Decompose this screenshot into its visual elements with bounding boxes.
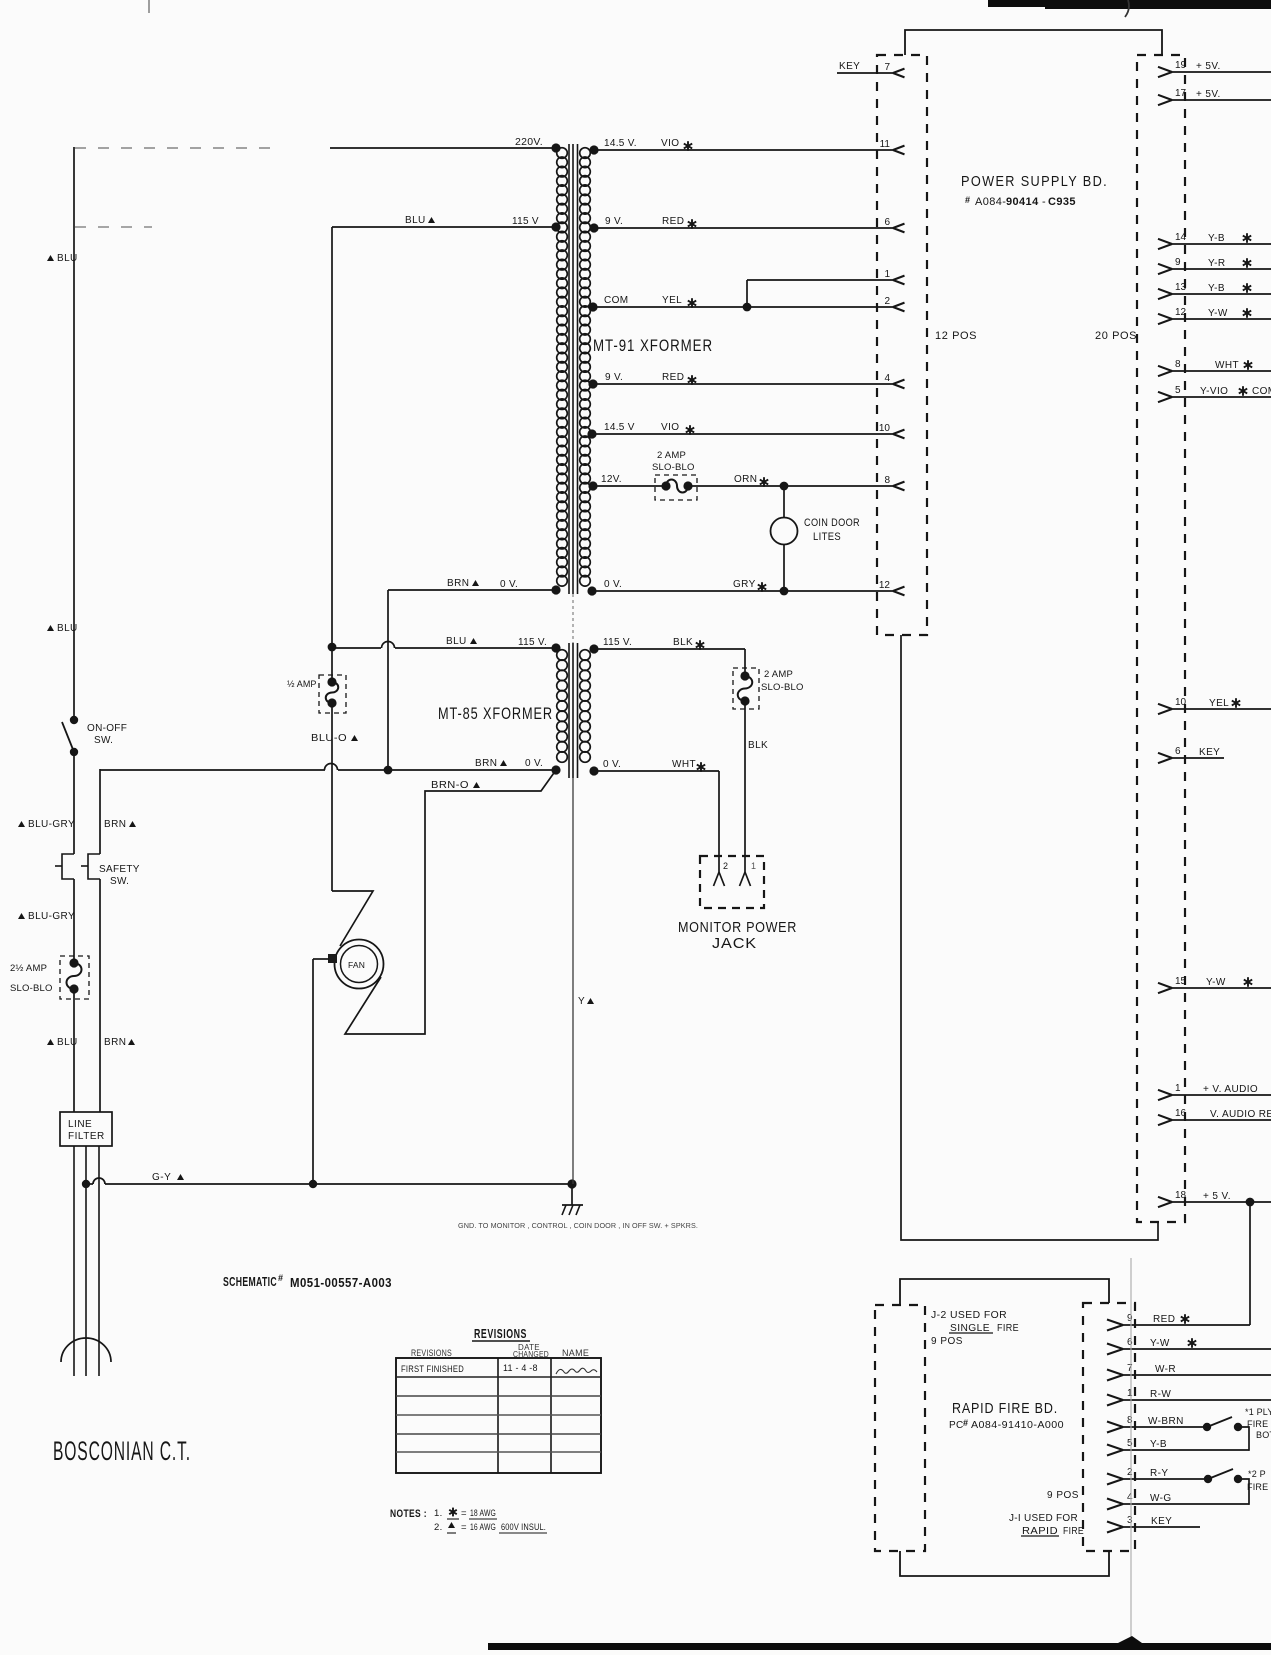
svg-text:COM: COM [604,295,629,306]
svg-text:VIO: VIO [661,422,679,433]
svg-text:J-2 USED FOR: J-2 USED FOR [931,1310,1007,1321]
svg-text:0 V.: 0 V. [603,759,621,770]
svg-text:9 V.: 9 V. [605,372,623,383]
svg-text:2: 2 [884,296,890,307]
svg-text:=: = [461,1508,467,1519]
svg-text:20 POS: 20 POS [1095,330,1137,342]
svg-text:7: 7 [884,62,890,73]
svg-text:FIRE: FIRE [1247,1482,1268,1492]
svg-text:YEL: YEL [1209,698,1229,709]
svg-text:10: 10 [1175,697,1187,708]
svg-text:Y-W: Y-W [1208,308,1228,319]
svg-text:BRN: BRN [447,578,469,589]
svg-text:9 POS: 9 POS [931,1336,963,1347]
svg-text:COIN DOOR: COIN DOOR [804,517,860,529]
svg-text:12V.: 12V. [601,474,622,485]
svg-text:R-W: R-W [1150,1389,1171,1400]
svg-text:9 V.: 9 V. [605,216,623,227]
svg-text:BLK: BLK [673,637,693,648]
svg-text:FIRST FINISHED: FIRST FINISHED [401,1364,464,1374]
svg-text:YEL: YEL [662,295,682,306]
svg-text:REVISIONS: REVISIONS [411,1348,452,1358]
svg-text:FAN: FAN [348,960,365,970]
svg-text:0 V.: 0 V. [500,579,518,590]
svg-text:FILTER: FILTER [68,1131,105,1142]
svg-text:+ 5V.: + 5V. [1196,61,1221,72]
svg-text:SLO-BLO: SLO-BLO [652,462,695,473]
svg-text:RAPID: RAPID [1022,1526,1058,1537]
svg-text:5: 5 [1175,385,1181,396]
svg-text:NAME: NAME [562,1348,589,1358]
svg-text:WHT: WHT [1215,360,1239,371]
svg-text:RAPID FIRE BD.: RAPID FIRE BD. [952,1400,1058,1417]
svg-text:SW.: SW. [110,876,129,887]
svg-text:16 AWG: 16 AWG [470,1522,496,1533]
svg-text:2½ AMP: 2½ AMP [10,963,47,974]
svg-text:Y-R: Y-R [1208,258,1226,269]
svg-text:0 V.: 0 V. [604,579,622,590]
svg-text:COM: COM [1252,386,1271,397]
svg-text:SLO-BLO: SLO-BLO [761,682,804,693]
svg-text:LITES: LITES [813,531,841,543]
svg-text:SW.: SW. [94,735,113,746]
svg-text:8: 8 [884,475,890,486]
svg-text:1: 1 [884,269,890,280]
svg-text:14.5 V.: 14.5 V. [604,138,637,149]
svg-text:VIO: VIO [661,138,679,149]
svg-text:BLU-O: BLU-O [311,733,347,744]
svg-text:15: 15 [1175,976,1187,987]
svg-text:18: 18 [1175,1190,1187,1201]
svg-text:2 AMP: 2 AMP [764,669,793,680]
svg-text:#: # [965,195,970,205]
svg-text:0 V.: 0 V. [525,758,543,769]
svg-text:GND. TO MONITOR , CONTROL , C: GND. TO MONITOR , CONTROL , COIN DOOR , … [458,1221,698,1230]
svg-text:8: 8 [1127,1415,1133,1426]
svg-text:KEY: KEY [839,61,860,72]
svg-text:11: 11 [880,139,891,150]
svg-text:RED: RED [662,372,684,383]
svg-text:Y-B: Y-B [1208,233,1225,244]
svg-text:V. AUDIO RET.: V. AUDIO RET. [1210,1109,1271,1120]
svg-text:SCHEMATIC: SCHEMATIC [223,1275,277,1289]
svg-text:600V INSUL.: 600V INSUL. [501,1522,546,1533]
svg-text:6: 6 [1175,746,1181,757]
svg-text:NOTES :: NOTES : [390,1508,427,1520]
svg-text:FIRE: FIRE [1063,1526,1084,1537]
svg-text:2: 2 [723,861,728,871]
svg-text:220V.: 220V. [515,136,543,148]
svg-text:W-R: W-R [1155,1364,1176,1375]
svg-text:C935: C935 [1048,196,1076,208]
svg-text:3: 3 [1127,1515,1133,1526]
svg-text:9 POS: 9 POS [1047,1490,1079,1501]
svg-text:FIRE: FIRE [1247,1419,1268,1429]
svg-text:A084-91410-A000: A084-91410-A000 [971,1420,1064,1431]
svg-text:BOTH: BOTH [1256,1430,1271,1440]
svg-text:115 V.: 115 V. [603,637,632,648]
svg-text:1.: 1. [434,1508,443,1519]
svg-text:17: 17 [1175,88,1187,99]
svg-text:BLU: BLU [405,215,426,226]
svg-text:4: 4 [884,373,890,384]
svg-text:*2 P: *2 P [1248,1469,1266,1479]
svg-text:KEY: KEY [1199,747,1220,758]
svg-text:RED: RED [1153,1314,1175,1325]
svg-text:4: 4 [1127,1492,1133,1503]
svg-text:R-Y: R-Y [1150,1468,1168,1479]
svg-text:RED: RED [662,216,684,227]
svg-text:16: 16 [1175,1108,1187,1119]
svg-text:#: # [278,1273,283,1283]
svg-text:13: 13 [1175,282,1187,293]
svg-text:SAFETY: SAFETY [99,864,140,875]
svg-text:+ V. AUDIO: + V. AUDIO [1203,1084,1258,1095]
svg-text:BLU: BLU [57,253,78,264]
svg-text:BLK: BLK [748,740,768,751]
svg-text:LINE: LINE [68,1119,92,1130]
svg-text:2.: 2. [434,1522,443,1533]
svg-text:BLU: BLU [57,1037,78,1048]
svg-text:SLO-BLO: SLO-BLO [10,983,53,994]
svg-text:+ 5 V.: + 5 V. [1203,1191,1231,1202]
svg-text:12: 12 [1175,307,1187,318]
svg-text:14.5 V: 14.5 V [604,422,635,433]
svg-text:BLU-GRY: BLU-GRY [28,819,75,830]
svg-text:*1 PLY: *1 PLY [1245,1407,1271,1417]
svg-text:5: 5 [1127,1438,1133,1449]
svg-text:FIRE: FIRE [997,1323,1019,1334]
svg-text:2 AMP: 2 AMP [657,450,686,461]
svg-text:9: 9 [1175,257,1181,268]
svg-text:BLU: BLU [57,623,78,634]
svg-text:BRN: BRN [104,1037,126,1048]
svg-text:18 AWG: 18 AWG [470,1508,496,1519]
svg-text:Y-B: Y-B [1208,283,1225,294]
svg-text:Y-W: Y-W [1150,1338,1170,1349]
svg-text:6: 6 [1127,1337,1133,1348]
svg-text:BRN: BRN [104,819,126,830]
svg-text:WHT: WHT [672,759,696,770]
svg-text:KEY: KEY [1151,1516,1172,1527]
svg-text:MT-91 XFORMER: MT-91 XFORMER [593,336,713,355]
svg-text:9: 9 [1127,1313,1133,1324]
svg-text:6: 6 [884,217,890,228]
svg-text:W-G: W-G [1150,1493,1172,1504]
svg-text:1: 1 [1127,1388,1133,1399]
svg-text:BLU: BLU [446,636,467,647]
svg-text:115 V.: 115 V. [518,637,547,648]
svg-text:BRN-O: BRN-O [431,780,469,791]
svg-text:Y: Y [578,996,585,1007]
svg-text:MT-85 XFORMER: MT-85 XFORMER [438,704,553,723]
svg-text:G-Y: G-Y [152,1172,171,1183]
svg-text:W-BRN: W-BRN [1148,1416,1184,1427]
svg-text:ORN: ORN [734,474,757,485]
svg-text:12 POS: 12 POS [935,330,977,342]
svg-text:90414: 90414 [1006,196,1039,208]
svg-text:Y-VIO: Y-VIO [1200,386,1228,397]
svg-text:10: 10 [879,423,891,434]
svg-text:7: 7 [1127,1363,1133,1374]
svg-text:A084-: A084- [975,196,1006,208]
svg-text:14: 14 [1175,232,1187,243]
svg-text:-: - [1042,196,1046,208]
svg-text:#: # [963,1418,968,1428]
svg-text:19: 19 [1175,60,1187,71]
svg-text:BLU-GRY: BLU-GRY [28,911,75,922]
svg-text:REVISIONS: REVISIONS [474,1326,527,1341]
svg-text:½ AMP: ½ AMP [287,679,317,689]
svg-text:GRY: GRY [733,579,756,590]
svg-text:11 - 4 -8: 11 - 4 -8 [503,1363,538,1373]
svg-text:=: = [461,1522,467,1533]
svg-text:8: 8 [1175,359,1181,370]
svg-text:POWER SUPPLY BD.: POWER SUPPLY BD. [961,173,1108,190]
svg-text:BRN: BRN [475,758,497,769]
svg-text:1: 1 [1175,1083,1181,1094]
svg-text:1: 1 [751,861,756,871]
svg-text:2: 2 [1127,1467,1133,1478]
svg-text:12: 12 [879,580,891,591]
svg-text:PC: PC [949,1420,964,1431]
svg-text:J-I USED FOR: J-I USED FOR [1009,1513,1078,1524]
svg-text:ON-OFF: ON-OFF [87,723,127,734]
svg-text:JACK: JACK [712,935,757,952]
svg-text:Y-W: Y-W [1206,977,1226,988]
svg-text:BOSCONIAN C.T.: BOSCONIAN C.T. [53,1436,191,1466]
svg-text:115 V: 115 V [512,216,539,227]
svg-text:M051-00557-A003: M051-00557-A003 [290,1276,392,1290]
svg-text:MONITOR POWER: MONITOR POWER [678,919,797,936]
svg-text:Y-B: Y-B [1150,1439,1167,1450]
svg-text:+ 5V.: + 5V. [1196,89,1221,100]
svg-text:SINGLE: SINGLE [950,1323,990,1334]
